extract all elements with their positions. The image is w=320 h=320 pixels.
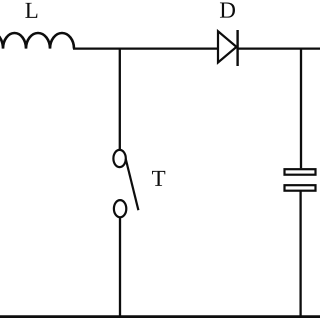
wire switch to bottom rail: [119, 217, 121, 317]
inductor L: [0, 33, 74, 49]
label L (inductor label): [25, 3, 37, 18]
wire capacitor to bottom rail: [299, 191, 301, 317]
label D (diode label): [220, 3, 235, 18]
diode D: [218, 30, 238, 66]
wire bottom rail: [0, 315, 320, 318]
wire inductor to diode anode: [73, 47, 218, 49]
wire right branch upper (to capacitor): [300, 49, 302, 169]
capacitor C: [285, 169, 316, 191]
wire middle branch upper (to switch): [119, 49, 121, 151]
label T (switch label): [152, 171, 165, 186]
switch T: [113, 150, 138, 217]
wire diode cathode to right edge: [238, 47, 320, 49]
